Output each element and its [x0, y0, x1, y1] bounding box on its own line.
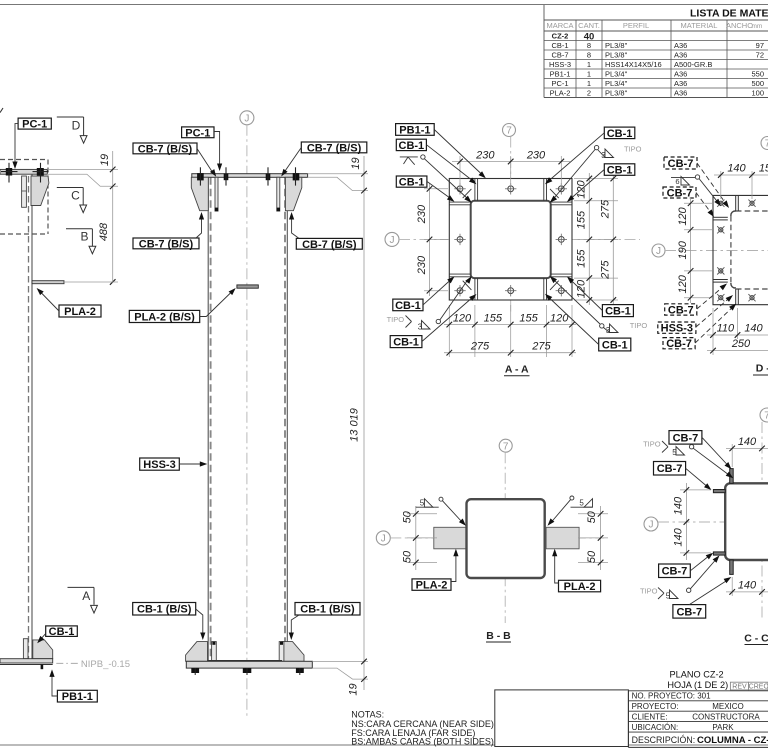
D-D dims bottom 110 140	[710, 332, 716, 338]
leader HSS-3 D-D	[696, 298, 730, 328]
D-D plate outline	[713, 195, 768, 304]
A-A bolt hole 8	[558, 288, 564, 294]
B-B dims 50 50 left	[413, 511, 419, 517]
leader CB-1 BS bottom-left	[196, 609, 203, 635]
leader weld TR	[553, 150, 595, 200]
A-A weld symbol TL	[400, 156, 418, 158]
svg-text:CB-1: CB-1	[607, 128, 633, 140]
label CB-7 BS mid-left	[133, 238, 199, 249]
leader CB-1 A-A BL1	[423, 280, 451, 305]
center plate bolt mark 3	[266, 173, 271, 180]
A-A left dim ext lines	[424, 188, 448, 190]
label CB-7 C-C top1	[669, 431, 702, 445]
svg-text:PLA-2: PLA-2	[550, 89, 571, 98]
svg-text:2: 2	[587, 89, 591, 98]
A-A bolt hole 7	[508, 288, 514, 294]
svg-text:97: 97	[756, 41, 764, 50]
A-A corner chamfer TL	[463, 189, 472, 198]
A-A bottom dim ext lines	[448, 305, 450, 357]
label PLA-2 left	[59, 305, 101, 317]
leader CB-1 left	[40, 634, 46, 641]
svg-text:6: 6	[675, 177, 679, 186]
left view base plate PB1-1 edge	[0, 659, 53, 663]
svg-text:275: 275	[470, 340, 490, 352]
leader CB-7 BS mid-left	[196, 217, 202, 239]
leader weld BR	[553, 279, 600, 324]
svg-text:275: 275	[600, 199, 612, 219]
D-D top dim line	[714, 174, 768, 176]
svg-text:CB-1: CB-1	[605, 306, 631, 318]
left view base gusset CB-1	[33, 640, 53, 659]
label CB-7 BS mid-right	[296, 238, 362, 249]
svg-text:J: J	[381, 534, 386, 545]
leader PB1-1 A-A	[434, 130, 482, 175]
A-A dims 275 275 bottom	[447, 350, 453, 356]
leader CB-7 BS top-right	[284, 148, 301, 173]
left view gusset CB-7	[31, 176, 49, 206]
svg-text:5: 5	[579, 499, 584, 508]
left view top plate PC-1 edge	[0, 169, 47, 174]
svg-text:TIPO: TIPO	[640, 587, 658, 596]
leader weld D-D	[699, 179, 718, 203]
A-A HSS-3 outline	[471, 201, 551, 278]
A-A grid circle 7	[503, 124, 516, 137]
label CB-7 D-D bottom1	[665, 304, 697, 315]
D-D bolt hole 1	[719, 201, 723, 205]
svg-text:1: 1	[587, 60, 591, 69]
A-A bolt hole 4	[457, 237, 463, 243]
B-B weld symbol right	[571, 506, 593, 508]
leader weld B-B left	[443, 501, 463, 523]
svg-text:140: 140	[738, 580, 757, 592]
A-A top gusset pair right	[543, 179, 545, 201]
leader CB-1 A-A BL2	[422, 297, 473, 342]
A-A corner chamfer BL	[463, 281, 472, 290]
center dim 19 top	[361, 171, 367, 177]
svg-text:72: 72	[756, 51, 764, 60]
svg-text:CB-7: CB-7	[676, 606, 702, 618]
svg-text:155: 155	[759, 163, 768, 175]
svg-text:J: J	[649, 520, 654, 531]
center base gusset CB-1 right	[282, 642, 304, 662]
A-A bolt hole 3	[558, 186, 564, 192]
left edge cut mark	[0, 108, 3, 113]
svg-text:B - B: B - B	[486, 630, 511, 642]
label HSS-3	[140, 458, 180, 470]
svg-text:19: 19	[99, 154, 111, 166]
center main dim line	[363, 156, 365, 690]
svg-text:13 019: 13 019	[348, 408, 360, 442]
svg-text:120: 120	[576, 279, 588, 298]
center top plate PC-1 edge	[192, 174, 308, 178]
label CB-7 D-D top2	[663, 187, 696, 198]
leader PC-1 left	[15, 124, 18, 164]
svg-text:PLA-2: PLA-2	[64, 306, 96, 318]
center column right hidden wall	[284, 177, 286, 660]
svg-text:UBICACIÓN:: UBICACIÓN:	[632, 723, 679, 732]
A-A dims 120 155 155 120 bottom	[447, 322, 453, 328]
svg-text:CB-1: CB-1	[551, 41, 568, 50]
svg-text:A36: A36	[674, 89, 687, 98]
D-D bolt hole 2	[750, 201, 754, 205]
label CB-7 BS top-left	[133, 143, 197, 154]
A-A right gusset pair top	[551, 201, 572, 203]
leader CB-7 BS top-left	[197, 149, 213, 174]
svg-text:155: 155	[519, 312, 538, 324]
D-D weld symbol 6	[671, 176, 695, 178]
D-D bolt hole 4	[719, 269, 723, 273]
svg-text:140: 140	[744, 323, 763, 335]
label PB1-1 left	[57, 690, 97, 702]
svg-text:120: 120	[453, 312, 472, 324]
B-B grid circle J	[376, 531, 390, 545]
svg-text:TIPO: TIPO	[630, 321, 648, 330]
svg-text:8: 8	[587, 51, 591, 60]
center column left hidden wall	[210, 177, 212, 660]
svg-text:120: 120	[677, 206, 689, 225]
A-A dims 275 275 right	[611, 176, 617, 182]
center plate bolt mark 4	[293, 173, 300, 180]
svg-text:500: 500	[751, 79, 764, 88]
D-D bottom dim line 1	[707, 334, 768, 336]
C-C horizontal centerline	[658, 521, 768, 523]
A-A bottom gusset pair left	[474, 278, 476, 300]
svg-text:275: 275	[531, 340, 551, 352]
label CB-1 A-A TR1	[604, 127, 635, 139]
grid circle J top	[240, 111, 254, 125]
svg-text:155: 155	[576, 249, 588, 268]
label PLA-2 B-B left	[412, 579, 451, 590]
center column centerline	[246, 125, 248, 718]
svg-text:PL3/4": PL3/4"	[605, 70, 628, 79]
leader CB-1 A-A BR2	[548, 297, 598, 345]
leader CB-7 C-C bottom1	[690, 556, 709, 571]
label PC-1 center	[182, 127, 214, 138]
svg-text:1: 1	[587, 70, 591, 79]
D-D HSS hidden outline	[736, 210, 768, 212]
svg-text:CREÓ: CREÓ	[749, 681, 768, 690]
A-A top dim line	[452, 161, 570, 163]
B-B PLA-2 plate right	[546, 527, 579, 549]
D-D bolt hole 5	[719, 296, 723, 300]
svg-text:CB-1: CB-1	[399, 140, 425, 152]
label CB-7 D-D bottom2	[663, 338, 695, 349]
svg-text:CANT.: CANT.	[578, 21, 600, 30]
center top gusset CB-7 left	[191, 177, 208, 210]
C-C HSS outline	[725, 483, 768, 560]
materials table grid	[543, 5, 545, 98]
left view dim 488	[110, 279, 116, 285]
label CB-7 C-C bottom1	[659, 564, 691, 578]
A-A bolt hole 6	[457, 288, 463, 294]
svg-text:PARK: PARK	[712, 723, 734, 732]
A-A right dim line inner	[588, 173, 590, 305]
left view dashed detail box	[0, 159, 48, 161]
label CB-1 left	[46, 626, 78, 637]
svg-text:A36: A36	[674, 51, 687, 60]
A-A base plate PB1-1 outline	[449, 179, 572, 301]
svg-text:D: D	[72, 119, 81, 133]
C-C grid circle 7 partial	[760, 408, 768, 422]
svg-text:CONSTRUCTORA: CONSTRUCTORA	[692, 713, 760, 722]
svg-text:A36: A36	[674, 41, 687, 50]
center plate bolt mark 2	[224, 173, 229, 180]
center anchor bolt 1	[191, 668, 199, 673]
A-A bolt hole 2	[508, 186, 514, 192]
svg-text:MARCA: MARCA	[546, 21, 573, 30]
svg-text:5: 5	[672, 448, 677, 457]
A-A grid circle J	[385, 232, 399, 246]
C-C top dim line	[726, 447, 768, 449]
svg-text:CB-7: CB-7	[657, 463, 683, 475]
svg-text:J: J	[656, 246, 661, 257]
svg-text:488: 488	[98, 222, 110, 241]
label CB-7 BS top-right	[301, 142, 367, 153]
svg-text:140: 140	[738, 436, 757, 448]
label CB-7 C-C bottom2	[673, 605, 706, 619]
center base plate PB1-1 edge	[186, 661, 312, 668]
A-A dims 120 155 155 120 right	[587, 176, 593, 182]
C-C left dim ext lines	[680, 489, 711, 491]
svg-text:HSS-3: HSS-3	[549, 60, 571, 69]
left view bolt mark 1	[6, 168, 12, 176]
leader CB-7 D-D bottom1	[697, 286, 724, 309]
svg-text:CZ-2: CZ-2	[552, 32, 569, 41]
A-A left gusset pair top	[449, 201, 470, 203]
svg-text:230: 230	[416, 255, 428, 275]
D-D horizontal centerline	[665, 250, 768, 252]
svg-text:230: 230	[416, 204, 428, 224]
center column left edge	[207, 177, 209, 661]
svg-text:MEXICO: MEXICO	[712, 702, 744, 711]
svg-text:ANCHO: ANCHO	[726, 21, 753, 30]
label CB-1 BS bottom-left	[133, 603, 196, 616]
svg-text:HSS-3: HSS-3	[143, 459, 175, 471]
svg-text:HSS-3: HSS-3	[661, 323, 693, 335]
svg-text:CB-7: CB-7	[667, 187, 693, 199]
leader weld C-C top	[693, 448, 729, 475]
C-C left top gusset tab	[713, 490, 725, 493]
section mark A	[68, 586, 95, 588]
leader CB-1 A-A TL1	[426, 145, 473, 181]
center dim 19 bottom	[361, 659, 367, 665]
leader CB-7 D-D top1	[697, 163, 727, 205]
D-D top dim ext lines	[720, 171, 722, 199]
left view column hidden line	[28, 176, 30, 660]
svg-text:155: 155	[484, 312, 503, 324]
B-B horizontal centerline	[390, 537, 604, 539]
svg-text:A - A: A - A	[505, 364, 529, 376]
C-C vertical centerline	[761, 422, 763, 620]
svg-text:BS:AMBAS CARAS (BOTH SIDES): BS:AMBAS CARAS (BOTH SIDES)	[351, 737, 494, 747]
svg-text:A500-GR.B: A500-GR.B	[674, 60, 712, 69]
svg-text:A36: A36	[674, 79, 687, 88]
label PB1-1 A-A	[396, 124, 435, 136]
svg-text:PL3/4": PL3/4"	[605, 79, 628, 88]
svg-text:B: B	[80, 229, 88, 243]
leader CB-1 A-A BR1	[570, 280, 602, 311]
label PC-1 left	[18, 118, 51, 129]
center base stiffener right	[279, 642, 284, 662]
svg-text:TIPO: TIPO	[387, 315, 405, 324]
leader weld BL	[440, 279, 468, 320]
label CB-7 D-D top1	[664, 157, 697, 169]
svg-text:550: 550	[751, 70, 764, 79]
center top gusset CB-7 right	[285, 177, 301, 210]
svg-text:CB-1: CB-1	[393, 337, 419, 349]
B-B grid circle 7	[499, 439, 512, 452]
svg-text:CB-7 (B/S): CB-7 (B/S)	[139, 238, 194, 250]
label CB-1 A-A TR2	[604, 164, 635, 176]
svg-text:CB-1: CB-1	[49, 626, 75, 638]
D-D bolt hole 3	[719, 228, 723, 232]
center top stiffener right	[277, 177, 280, 211]
svg-text:NO. PROYECTO: 301: NO. PROYECTO: 301	[632, 692, 712, 701]
svg-text:CLIENTE:: CLIENTE:	[632, 713, 668, 722]
page top border	[0, 4, 768, 6]
svg-text:NIPB_-0.15: NIPB_-0.15	[81, 659, 130, 670]
page bottom border	[0, 744, 768, 746]
B-B right dim ext lines	[578, 513, 608, 515]
svg-text:A36: A36	[674, 70, 687, 79]
left view PLA-2 ext line	[64, 281, 118, 283]
section mark C	[57, 187, 83, 189]
svg-text:3: 3	[418, 323, 423, 332]
A-A right gusset pair bottom	[551, 273, 572, 275]
A-A left gusset pair bottom	[449, 273, 470, 275]
left view anchor tick	[41, 665, 44, 670]
section mark D	[57, 116, 84, 118]
svg-text:CB-7 (B/S): CB-7 (B/S)	[307, 142, 362, 154]
D-D dims left 120 190 120	[688, 200, 694, 206]
svg-text:HOJA (1 DE 2): HOJA (1 DE 2)	[667, 680, 728, 690]
B-B weld symbol left	[416, 506, 439, 508]
A-A dim 230 230 left	[427, 186, 433, 192]
svg-text:19: 19	[347, 683, 359, 695]
svg-text:C: C	[71, 189, 80, 203]
svg-text:D - D: D - D	[756, 363, 768, 375]
left view column edge	[31, 174, 33, 659]
C-C grid circle J	[644, 517, 658, 531]
label PLA-2 B-B right	[559, 580, 601, 592]
svg-text:PC-1: PC-1	[185, 127, 210, 139]
label CB-1 A-A BR1	[602, 305, 633, 317]
svg-text:C - C: C - C	[744, 633, 768, 645]
svg-text:50: 50	[401, 510, 413, 523]
svg-text:250: 250	[731, 338, 751, 350]
leader PLA-2 B-B left	[451, 554, 456, 582]
center column right edge	[286, 177, 288, 661]
leader CB-7 D-D bottom2	[695, 307, 733, 344]
svg-text:140: 140	[673, 527, 685, 546]
left view plate PLA-2 edge	[32, 281, 64, 284]
svg-text:7: 7	[764, 411, 768, 422]
leader PLA-2 B-B right	[555, 554, 559, 584]
svg-text:REV: REV	[732, 683, 747, 690]
title block empty box	[495, 690, 629, 747]
svg-text:50: 50	[586, 550, 598, 563]
D-D top gusset pair	[735, 195, 737, 211]
A-A right dim line outer	[612, 173, 614, 305]
label PLA-2 BS	[129, 310, 199, 322]
leader PC-1 center	[214, 132, 220, 166]
D-D dim bottom 250	[710, 348, 716, 354]
center HSS bottom edge on plate	[208, 660, 283, 662]
section mark B	[66, 228, 92, 230]
A-A vertical centerline	[510, 137, 512, 313]
svg-text:PC-1: PC-1	[551, 79, 568, 88]
left view dim 19	[110, 167, 116, 173]
svg-text:7: 7	[506, 126, 512, 137]
A-A bottom dim line 1	[444, 324, 576, 326]
B-B left dim line	[415, 506, 417, 570]
C-C dim bottom 140	[729, 589, 735, 595]
svg-text:PB1-1: PB1-1	[399, 124, 430, 136]
svg-text:8: 8	[587, 41, 591, 50]
A-A horizontal centerline	[399, 238, 640, 240]
label HSS-3 D-D	[658, 322, 696, 333]
svg-text:PB1-1: PB1-1	[62, 691, 93, 703]
left view dim line	[112, 151, 114, 282]
svg-text:A: A	[82, 589, 90, 603]
svg-text:CB-7: CB-7	[666, 338, 692, 350]
svg-text:CB-1: CB-1	[607, 165, 633, 177]
svg-text:COLUMNA - CZ-2: COLUMNA - CZ-2	[697, 735, 768, 746]
leader weld TL	[425, 159, 469, 199]
svg-text:230: 230	[475, 149, 495, 161]
center plate PLA-2 edge	[237, 285, 258, 288]
svg-text:PB1-1: PB1-1	[550, 70, 571, 79]
C-C bottom gusset tab	[730, 560, 734, 574]
A-A corner chamfer TR	[550, 189, 559, 198]
leader weld B-B right	[551, 500, 570, 523]
svg-text:CB-1: CB-1	[395, 300, 421, 312]
svg-text:1: 1	[587, 79, 591, 88]
D-D left gusset pair top	[713, 216, 728, 218]
svg-text:PLA-2: PLA-2	[416, 580, 448, 592]
label CB-1 BS bottom-right	[295, 603, 360, 616]
leader CB-7 C-C top1	[702, 437, 729, 466]
C-C bottom dim line	[726, 591, 768, 593]
A-A weld symbol TR	[594, 145, 598, 149]
C-C left dim line	[685, 483, 687, 560]
label CB-1 A-A TL1	[396, 139, 426, 150]
svg-text:230: 230	[526, 149, 546, 161]
left view base stiffener	[23, 639, 28, 659]
center dim ext 19 bottom	[312, 661, 368, 663]
svg-text:190: 190	[677, 240, 689, 259]
svg-text:PC-1: PC-1	[22, 119, 47, 131]
D-D grid circle J	[652, 244, 665, 257]
svg-text:CB-1: CB-1	[602, 339, 628, 351]
svg-text:CB-7: CB-7	[662, 566, 688, 578]
svg-text:140: 140	[727, 163, 746, 175]
label CB-1 A-A BR2	[599, 338, 631, 351]
leader HSS-3	[179, 463, 202, 465]
label CB-1 A-A BL2	[390, 336, 422, 348]
svg-text:HSS14X14X5/16: HSS14X14X5/16	[605, 60, 662, 69]
B-B PLA-2 plate left	[434, 527, 467, 549]
svg-text:CB-7: CB-7	[673, 432, 699, 444]
svg-text:TIPO: TIPO	[624, 145, 642, 154]
leader CB-7 D-D top2	[696, 193, 712, 214]
A-A corner chamfer BR	[550, 281, 559, 290]
REV box	[730, 682, 748, 690]
svg-text:110: 110	[717, 323, 735, 335]
svg-text:140: 140	[673, 496, 685, 515]
center base gusset CB-1 left	[186, 642, 208, 662]
A-A top dim ext lines	[459, 156, 461, 186]
